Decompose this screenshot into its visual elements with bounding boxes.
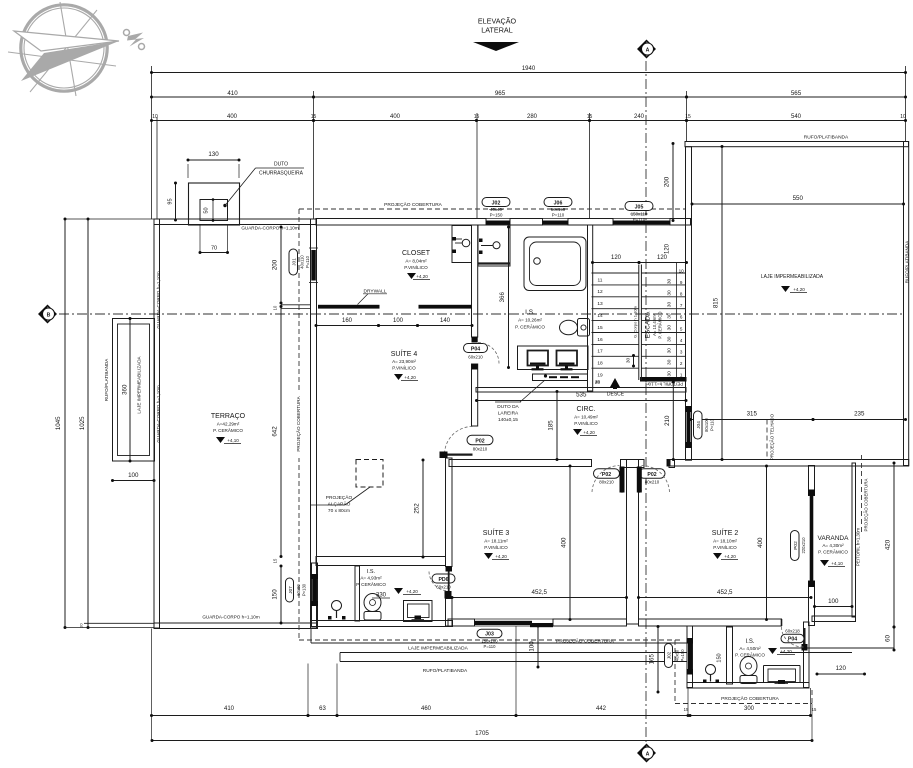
dim 400 suite3 bbox=[561, 465, 572, 622]
svg-text:240: 240 bbox=[634, 114, 645, 120]
svg-text:SUÍTE 3: SUÍTE 3 bbox=[483, 528, 510, 537]
svg-text:366: 366 bbox=[499, 292, 506, 303]
dim 642 suite4 bbox=[272, 305, 283, 558]
svg-text:3: 3 bbox=[680, 349, 683, 354]
wall laje left bbox=[686, 147, 692, 461]
svg-text:I.S.: I.S. bbox=[525, 309, 535, 316]
svg-text:460: 460 bbox=[421, 706, 432, 712]
dim 400 suite2 bbox=[757, 465, 768, 622]
section marker A bottom bbox=[638, 745, 655, 762]
svg-text:B: B bbox=[47, 312, 51, 318]
laje bottom wall left end cap bbox=[667, 460, 671, 467]
svg-text:RUFO/PLATIBANDA: RUFO/PLATIBANDA bbox=[104, 358, 109, 401]
svg-text:442: 442 bbox=[596, 706, 607, 712]
svg-text:J07: J07 bbox=[288, 586, 293, 594]
svg-text:P. CERÂMICO: P. CERÂMICO bbox=[515, 324, 545, 330]
dim 200 closet bbox=[272, 226, 283, 305]
svg-text:VARANDA: VARANDA bbox=[818, 535, 850, 542]
svg-text:P. CERÂMICO: P. CERÂMICO bbox=[818, 549, 848, 555]
svg-text:+4,20: +4,20 bbox=[416, 274, 428, 279]
svg-text:7: 7 bbox=[680, 303, 683, 308]
svg-text:410: 410 bbox=[224, 706, 235, 712]
svg-text:15: 15 bbox=[812, 707, 817, 712]
svg-text:18: 18 bbox=[597, 361, 603, 367]
svg-text:150: 150 bbox=[272, 589, 279, 600]
svg-text:5: 5 bbox=[680, 326, 683, 331]
svg-text:120: 120 bbox=[657, 255, 668, 261]
svg-text:A= 4,30m²: A= 4,30m² bbox=[822, 543, 844, 548]
svg-text:80x210: 80x210 bbox=[473, 447, 488, 452]
window label J07 rotated terrace IS bbox=[286, 578, 307, 602]
dim 160 100 140 closet row bbox=[315, 318, 474, 327]
label IS2 bbox=[735, 639, 795, 658]
svg-text:I.S.: I.S. bbox=[745, 639, 754, 645]
leader DUTO CHURRASQUEIRA bbox=[223, 162, 304, 208]
dim 15 150 left lower bbox=[272, 558, 283, 624]
dim 60 right bbox=[885, 626, 896, 652]
shower IS2 bbox=[764, 666, 801, 685]
svg-text:A= 23,90m²: A= 23,90m² bbox=[392, 359, 416, 364]
laje edge lines bottom bbox=[311, 629, 687, 662]
svg-text:220x210: 220x210 bbox=[801, 537, 806, 554]
stair dim 30 bracket bbox=[626, 354, 636, 368]
projection cobertura dashed varanda bbox=[862, 455, 869, 535]
svg-text:+4,10: +4,10 bbox=[831, 561, 843, 566]
stair dim 120 120 bbox=[591, 243, 688, 264]
planter laje outline left bbox=[113, 319, 155, 462]
svg-text:LATERAL: LATERAL bbox=[481, 26, 512, 35]
logo mark (pencil/Z glyph) bbox=[124, 30, 145, 50]
svg-text:GUARDA-CORPO h=1,10m: GUARDA-CORPO h=1,10m bbox=[156, 385, 161, 442]
shower stall closet corner bbox=[478, 225, 510, 266]
svg-text:15: 15 bbox=[474, 114, 480, 120]
svg-text:185: 185 bbox=[548, 420, 555, 431]
dim row 400 400 280 240 540 bbox=[150, 114, 907, 122]
window IS2 left glazing bbox=[687, 638, 694, 675]
label IS1 bbox=[515, 309, 545, 330]
svg-text:TERRAÇO: TERRAÇO bbox=[211, 413, 246, 420]
svg-text:60x90: 60x90 bbox=[296, 584, 301, 596]
dim 550 laje bbox=[691, 195, 906, 206]
svg-text:80x100: 80x100 bbox=[704, 417, 709, 431]
svg-text:A= 18,11m²: A= 18,11m² bbox=[484, 539, 508, 544]
svg-text:120: 120 bbox=[665, 243, 671, 254]
svg-text:P=150: P=150 bbox=[490, 213, 503, 218]
dim 1025 left bbox=[79, 218, 90, 630]
svg-text:40x110: 40x110 bbox=[300, 255, 305, 269]
svg-text:400: 400 bbox=[390, 114, 401, 120]
svg-text:550: 550 bbox=[793, 195, 804, 202]
svg-text:P02: P02 bbox=[602, 472, 611, 478]
label SUITE 3 bbox=[483, 528, 510, 560]
dim 120 below varanda bbox=[816, 665, 867, 676]
dim 100 varanda bbox=[813, 598, 854, 608]
svg-text:A= 10,49m²: A= 10,49m² bbox=[652, 314, 657, 336]
projection cobertura dashed top bbox=[299, 201, 685, 209]
svg-text:13: 13 bbox=[597, 301, 603, 307]
guide vertical lines from dimension chains bbox=[152, 66, 906, 219]
svg-text:G. Corpo h 1,10m: G. Corpo h 1,10m bbox=[633, 305, 638, 337]
dim 165 IS2 bbox=[649, 625, 660, 694]
svg-text:CLOSET: CLOSET bbox=[402, 250, 431, 257]
dim 100 suite3 south bbox=[529, 625, 540, 669]
svg-text:63: 63 bbox=[319, 706, 326, 712]
section marker B left bbox=[39, 306, 56, 323]
window label J03 suite3 south bbox=[477, 629, 502, 649]
wall main top with window openings bbox=[316, 219, 691, 226]
sink IS2 bbox=[703, 665, 719, 684]
door P02 suite2 bbox=[637, 466, 670, 493]
svg-text:140: 140 bbox=[440, 318, 451, 324]
svg-text:1045: 1045 bbox=[55, 416, 62, 430]
svg-text:RUFO/PLATIBANDA: RUFO/PLATIBANDA bbox=[905, 240, 910, 283]
svg-text:15: 15 bbox=[685, 114, 691, 120]
label LAJE IMPERMEABILIZADA planter bbox=[137, 355, 142, 413]
window label J02 rotated IS2 bbox=[665, 644, 686, 668]
svg-text:120: 120 bbox=[836, 665, 847, 672]
svg-text:200: 200 bbox=[272, 259, 279, 270]
svg-text:535: 535 bbox=[576, 392, 587, 399]
svg-text:95: 95 bbox=[168, 198, 174, 204]
dim 20 terrace bottom left bbox=[80, 623, 84, 627]
svg-text:19: 19 bbox=[597, 373, 603, 379]
label CIRC bbox=[573, 406, 598, 436]
svg-text:P02: P02 bbox=[647, 472, 656, 478]
svg-text:P04: P04 bbox=[471, 346, 480, 352]
svg-text:P.VINÍLICO: P.VINÍLICO bbox=[392, 365, 416, 371]
wall laje top-right: top bbox=[685, 142, 909, 147]
label LAJE IMPERMEABILIZADA big bbox=[761, 274, 824, 293]
svg-text:30: 30 bbox=[666, 290, 672, 296]
svg-text:J03: J03 bbox=[485, 632, 494, 638]
door P04 bath1 bbox=[464, 343, 500, 364]
svg-text:SUÍTE 2: SUÍTE 2 bbox=[712, 528, 739, 537]
svg-text:PROJEÇÃO COBERTURA: PROJEÇÃO COBERTURA bbox=[556, 638, 615, 645]
window J07 glazing IS-terrace bbox=[311, 574, 318, 606]
svg-text:30: 30 bbox=[666, 302, 672, 308]
svg-text:PROJEÇÃO COBERTURA: PROJEÇÃO COBERTURA bbox=[295, 395, 301, 451]
dim 130 chimney bbox=[187, 151, 241, 178]
svg-text:+4,20: +4,20 bbox=[780, 649, 792, 654]
wall suite3 suite2 divider bbox=[627, 460, 639, 625]
label PROJECAO COBERTURA bottom mid bbox=[556, 638, 615, 645]
svg-text:J02: J02 bbox=[667, 651, 672, 659]
svg-text:GUARDA-CORPO h=1,10m: GUARDA-CORPO h=1,10m bbox=[241, 226, 298, 231]
stair right flight risers and numbers bbox=[641, 263, 686, 377]
svg-text:LAJE IMPERMEABILIZADA: LAJE IMPERMEABILIZADA bbox=[761, 274, 824, 280]
wall IS-terrace divider bbox=[355, 566, 360, 621]
dim 452,5 suite3 bbox=[451, 589, 629, 599]
svg-text:A= 8,04m²: A= 8,04m² bbox=[405, 259, 427, 264]
svg-text:+4,20: +4,20 bbox=[583, 430, 595, 435]
label SUITE 4 bbox=[391, 349, 418, 381]
svg-text:70 x 80cm: 70 x 80cm bbox=[328, 508, 350, 514]
svg-text:30: 30 bbox=[666, 348, 672, 354]
dim bottom row 410 63 460 442 300 bbox=[150, 706, 817, 717]
svg-text:A= 4,50m²: A= 4,50m² bbox=[739, 646, 761, 651]
projection cobertura dashed bottom-left bbox=[299, 639, 680, 641]
shower IS terrace bbox=[404, 601, 433, 622]
svg-text:A= 10,26m²: A= 10,26m² bbox=[518, 318, 542, 323]
svg-text:P02: P02 bbox=[793, 541, 799, 550]
svg-text:6: 6 bbox=[680, 315, 683, 320]
svg-text:315: 315 bbox=[747, 411, 758, 418]
svg-text:10: 10 bbox=[679, 269, 685, 274]
drywall closet bottom bbox=[318, 289, 472, 309]
wall laje right bbox=[904, 142, 909, 466]
dim 150 IS2 bbox=[717, 653, 723, 662]
svg-text:J04: J04 bbox=[696, 421, 702, 429]
svg-text:J06: J06 bbox=[554, 200, 563, 206]
sink IS terrace bbox=[328, 601, 346, 620]
svg-text:400: 400 bbox=[757, 537, 764, 548]
svg-text:LAJE IMPERMEABILIZADA: LAJE IMPERMEABILIZADA bbox=[137, 355, 142, 413]
svg-text:PEITORIL h=1,10m: PEITORIL h=1,10m bbox=[645, 382, 684, 387]
vanity twin sinks bbox=[518, 346, 589, 370]
vanity shelf bbox=[533, 374, 588, 381]
svg-text:4: 4 bbox=[680, 338, 683, 343]
dim 452,5 suite2 bbox=[637, 589, 813, 599]
dim 70 chimney bbox=[199, 225, 230, 254]
svg-text:P=110: P=110 bbox=[305, 255, 310, 268]
wall closet right / IS divider bbox=[472, 225, 478, 426]
wall bath south / circ north bbox=[476, 388, 686, 393]
label PROJECAO COBERTURA IS2 bbox=[721, 695, 780, 702]
svg-text:30: 30 bbox=[666, 325, 672, 331]
wall IS2 outline lower right bbox=[687, 622, 809, 688]
svg-text:P04: P04 bbox=[788, 637, 797, 643]
dim 210 circ right bbox=[664, 381, 675, 462]
svg-text:14: 14 bbox=[597, 313, 603, 319]
wall bath-stair divider bbox=[588, 225, 593, 391]
svg-text:30: 30 bbox=[666, 371, 672, 377]
chimney duct box bbox=[189, 183, 240, 225]
window J01 glazing on interior left wall bbox=[309, 248, 318, 283]
dim 535 circ bbox=[475, 392, 688, 403]
svg-text:J01: J01 bbox=[292, 258, 298, 266]
svg-text:100: 100 bbox=[828, 598, 839, 605]
svg-text:A: A bbox=[646, 47, 650, 53]
svg-text:PROJEÇÃO TELHADO: PROJEÇÃO TELHADO bbox=[770, 413, 775, 460]
dim 360 planter bbox=[122, 317, 132, 463]
door P02 suite4 bbox=[440, 427, 494, 459]
svg-text:PEITORIL h=1,30m: PEITORIL h=1,30m bbox=[856, 528, 861, 567]
svg-text:965: 965 bbox=[495, 90, 506, 97]
svg-text:P02: P02 bbox=[475, 439, 484, 445]
svg-text:ELEVAÇÃO: ELEVAÇÃO bbox=[478, 17, 517, 26]
wall circ south / suites top bbox=[449, 460, 675, 468]
svg-text:RUFO/PLATIBANDA: RUFO/PLATIBANDA bbox=[423, 668, 468, 674]
window J06 glazing bbox=[540, 219, 571, 226]
svg-text:400: 400 bbox=[561, 537, 568, 548]
svg-text:+4,20: +4,20 bbox=[495, 554, 507, 559]
stair rail center bbox=[639, 265, 642, 381]
svg-text:210: 210 bbox=[664, 415, 671, 426]
svg-text:P=110: P=110 bbox=[710, 418, 715, 431]
svg-text:60: 60 bbox=[885, 635, 892, 642]
svg-text:420: 420 bbox=[885, 539, 892, 550]
svg-text:2: 2 bbox=[680, 361, 683, 366]
dim 1705 bottom bbox=[151, 730, 814, 742]
svg-text:LAJE IMPERMEABILIZADA: LAJE IMPERMEABILIZADA bbox=[408, 646, 469, 652]
svg-text:15: 15 bbox=[273, 558, 278, 563]
window suite3 south sliding glazing bbox=[472, 619, 556, 627]
svg-text:60x210: 60x210 bbox=[468, 355, 483, 360]
svg-text:100: 100 bbox=[128, 472, 139, 479]
svg-text:120: 120 bbox=[611, 255, 622, 261]
svg-text:30: 30 bbox=[666, 313, 672, 319]
svg-text:150x100: 150x100 bbox=[481, 639, 498, 644]
dim 366 bath bbox=[499, 226, 510, 370]
svg-text:A= 18,10m²: A= 18,10m² bbox=[713, 539, 737, 544]
svg-text:70: 70 bbox=[211, 246, 217, 252]
washtub cabinet closet bbox=[452, 226, 472, 263]
svg-text:P. CERÂMICO: P. CERÂMICO bbox=[213, 427, 243, 433]
dim 100 planter bbox=[111, 472, 156, 482]
svg-text:+4,20: +4,20 bbox=[793, 287, 805, 292]
dim 252 suite4 bbox=[414, 459, 425, 559]
svg-text:400: 400 bbox=[227, 114, 238, 120]
svg-text:9: 9 bbox=[680, 280, 683, 285]
label LAJE IMPERMEABILIZADA bottom bbox=[408, 646, 469, 652]
label IS terrace bbox=[356, 569, 421, 599]
svg-text:30: 30 bbox=[626, 358, 632, 364]
svg-text:10: 10 bbox=[152, 114, 158, 120]
svg-text:1: 1 bbox=[680, 372, 683, 377]
svg-text:30: 30 bbox=[666, 359, 672, 365]
window label J02 bbox=[482, 198, 510, 218]
compass rose north arrow bbox=[8, 2, 119, 96]
dim 420 right bbox=[885, 462, 896, 629]
svg-text:60x218: 60x218 bbox=[785, 629, 800, 634]
svg-text:GUARDA-CORPO h=1,10m: GUARDA-CORPO h=1,10m bbox=[156, 271, 161, 328]
label SUITE 2 bbox=[712, 528, 739, 560]
label GUARDA-CORPO left wall bbox=[156, 385, 161, 442]
svg-text:P.VINÍLICO: P.VINÍLICO bbox=[713, 544, 737, 550]
stair left flight risers bbox=[592, 273, 639, 384]
wall laje bottom / suite2 top bbox=[667, 460, 909, 467]
svg-text:P=130: P=130 bbox=[302, 583, 307, 596]
svg-text:P=110: P=110 bbox=[633, 217, 646, 222]
svg-text:DUTO: DUTO bbox=[274, 162, 288, 168]
svg-text:1705: 1705 bbox=[475, 730, 489, 737]
dim 185 circ bbox=[548, 390, 559, 461]
svg-text:SUÍTE 4: SUÍTE 4 bbox=[391, 349, 418, 358]
stair DESCE arrow bbox=[595, 378, 625, 398]
svg-text:ALÇAPÃO: ALÇAPÃO bbox=[328, 501, 351, 508]
wall suite3 left bbox=[446, 458, 453, 626]
svg-text:PROJEÇÃO: PROJEÇÃO bbox=[326, 494, 353, 501]
svg-text:200: 200 bbox=[664, 176, 671, 187]
projection cobertura label left rotated bbox=[294, 390, 304, 458]
svg-text:452,5: 452,5 bbox=[717, 589, 733, 596]
svg-text:PD6: PD6 bbox=[438, 577, 448, 583]
svg-text:A=42,29m²: A=42,29m² bbox=[217, 422, 240, 427]
toilet bathroom1 bbox=[560, 319, 590, 337]
window J02 glazing bbox=[483, 219, 513, 226]
dim 200 laje left bbox=[664, 142, 675, 222]
svg-text:P=110: P=110 bbox=[484, 644, 497, 649]
door PD6 IS terrace bbox=[429, 572, 455, 599]
label TERRACO bbox=[211, 413, 246, 444]
label GUARDA-CORPO bottom bbox=[202, 615, 259, 620]
svg-text:300: 300 bbox=[744, 706, 755, 712]
svg-text:30: 30 bbox=[666, 278, 672, 284]
svg-text:I.S.: I.S. bbox=[367, 569, 376, 575]
window J04 glazing on laje left wall bbox=[685, 406, 692, 448]
dim 815 laje bbox=[713, 145, 724, 461]
svg-text:165: 165 bbox=[649, 654, 656, 665]
dim 1045 left bbox=[55, 218, 154, 630]
svg-text:+4,10: +4,10 bbox=[227, 438, 239, 443]
svg-text:642: 642 bbox=[272, 426, 279, 437]
bathtub bbox=[524, 237, 586, 291]
dim 1940 top bbox=[150, 66, 907, 74]
svg-text:1940: 1940 bbox=[522, 66, 536, 72]
label PEITORIL stair flipped bbox=[645, 382, 684, 387]
svg-text:150: 150 bbox=[717, 653, 723, 662]
label ELEVACAO LATERAL bbox=[473, 17, 519, 52]
svg-text:1025: 1025 bbox=[79, 416, 86, 430]
svg-text:CIRC.: CIRC. bbox=[576, 406, 595, 413]
svg-text:10: 10 bbox=[273, 305, 278, 310]
svg-text:15: 15 bbox=[587, 114, 593, 120]
wall IS2 divider bbox=[727, 627, 733, 684]
svg-text:P. CERÂMICO: P. CERÂMICO bbox=[356, 581, 386, 587]
label CLOSET bbox=[402, 250, 431, 280]
stair label ESCADA bbox=[645, 311, 663, 339]
wall IS-terrace left bbox=[312, 563, 318, 623]
wall IS-terrace south bbox=[312, 621, 453, 627]
svg-text:11: 11 bbox=[598, 277, 603, 283]
svg-text:15: 15 bbox=[597, 325, 603, 331]
window label J06 bbox=[544, 198, 572, 218]
label RUFO/PLATIBANDA right rotated bbox=[905, 240, 910, 283]
svg-text:GUARDA-CORPO h=1,10m: GUARDA-CORPO h=1,10m bbox=[202, 615, 259, 620]
leader alcapao bbox=[310, 487, 370, 514]
svg-text:J05: J05 bbox=[635, 204, 644, 210]
toilet IS2 bbox=[740, 657, 757, 684]
svg-text:DESCE: DESCE bbox=[607, 392, 625, 398]
svg-text:10: 10 bbox=[900, 114, 906, 120]
window label J05 bbox=[625, 202, 653, 223]
wall suite4 south bbox=[316, 557, 446, 566]
label PEITORIL varanda bbox=[856, 528, 861, 567]
svg-text:15: 15 bbox=[311, 114, 317, 120]
section marker A top bbox=[638, 41, 655, 58]
svg-text:815: 815 bbox=[713, 297, 720, 308]
svg-text:+4,20: +4,20 bbox=[724, 554, 736, 559]
stair label corrimao bbox=[633, 305, 638, 337]
label VARANDA bbox=[818, 535, 850, 567]
svg-text:PROJEÇÃO COBERTURA: PROJEÇÃO COBERTURA bbox=[721, 695, 780, 702]
svg-text:252: 252 bbox=[414, 503, 421, 514]
projection cobertura dashed left vertical bbox=[298, 209, 300, 640]
svg-text:540: 540 bbox=[791, 114, 802, 120]
svg-text:RUFO/PLATIBANDA: RUFO/PLATIBANDA bbox=[804, 135, 849, 141]
svg-text:452,5: 452,5 bbox=[532, 589, 548, 596]
window label J04 rotated laje bbox=[694, 411, 715, 439]
svg-text:8: 8 bbox=[680, 292, 683, 297]
section line A vertical dash-dot bbox=[645, 61, 647, 742]
window J05 glazing bbox=[610, 219, 673, 226]
svg-text:565: 565 bbox=[791, 90, 802, 97]
label RUFO/PLATIBANDA top right bbox=[804, 135, 849, 141]
svg-text:140±0,15: 140±0,15 bbox=[498, 417, 518, 423]
svg-text:+4,20: +4,20 bbox=[404, 375, 416, 380]
svg-text:20: 20 bbox=[595, 380, 600, 385]
toilet IS terrace bbox=[364, 594, 381, 621]
